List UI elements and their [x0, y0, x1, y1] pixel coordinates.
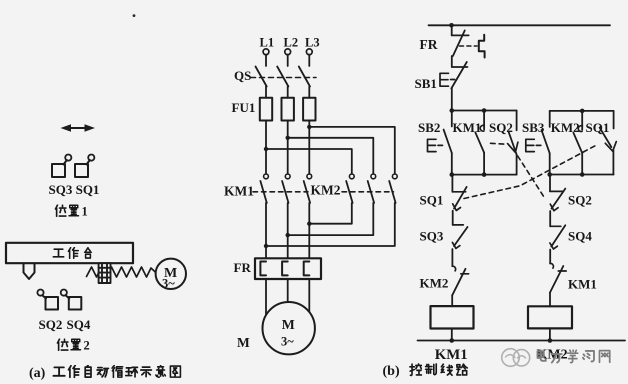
FR linkage dashes: [460, 45, 478, 47]
svg-text:KM2: KM2: [551, 120, 580, 135]
screw nut block: [99, 263, 111, 283]
KM1 linkage dashed: [253, 191, 308, 193]
watermark logo circles: [502, 349, 530, 367]
wire fuse3 down to KM1 pole3: [308, 121, 310, 174]
contactor KM1 pole 3: [304, 174, 312, 203]
limit switch SQ3 NC contact: [452, 225, 467, 266]
svg-text:SQ1: SQ1: [586, 120, 610, 135]
motion double arrow: [61, 124, 96, 132]
node crossover b: [286, 233, 290, 237]
svg-text:KM1: KM1: [453, 120, 482, 135]
coil KM1: [431, 306, 474, 328]
KM2 linkage dashed: [342, 191, 394, 193]
wire coil KM1 to bottom line: [451, 329, 453, 341]
contactor KM2 pole 1: [346, 174, 354, 203]
limit switch SQ1 NC contact: [452, 175, 466, 225]
label 位置2: [58, 339, 90, 353]
node bottom-SB3: [547, 172, 552, 177]
wire fuse1 down to KM1 pole1: [265, 121, 267, 174]
QS linkage dashed line: [251, 77, 317, 79]
start button SB2 (NO): [444, 111, 452, 175]
SB2 pushbutton actuator E: [428, 139, 443, 151]
limit switch SQ4 NC contact: [550, 225, 565, 263]
limit switch SQ2 symbol (roller left): [37, 290, 58, 310]
caption (a) 工作自动循环示意图: [29, 365, 180, 381]
svg-text:KM1: KM1: [435, 347, 468, 363]
wire L1 branch to KM2 pole1: [266, 149, 352, 174]
svg-text:KM2: KM2: [311, 183, 341, 198]
linkage dashed SQ2 (NO to NC): [491, 143, 544, 196]
svg-text:L1: L1: [260, 35, 275, 49]
contactor KM2 pole 2: [368, 174, 376, 203]
svg-text:SQ3: SQ3: [420, 229, 444, 244]
svg-text:(a): (a): [29, 366, 46, 381]
right group top rail: [550, 110, 614, 112]
node bottom KM2: [548, 338, 553, 343]
speck: [133, 14, 136, 17]
svg-text:KM1: KM1: [224, 184, 254, 199]
svg-text:FU1: FU1: [232, 100, 256, 115]
wire KM1 pole3 to FR: [308, 203, 310, 258]
wire L1 to QS: [265, 55, 267, 66]
node top junction: [449, 23, 454, 28]
watermark text 电力学习网: [537, 350, 609, 363]
switch QS pole 3 blade: [299, 67, 310, 87]
limit switch SQ1 NO contact: [600, 111, 614, 175]
contact KM2 aux NO: [573, 111, 582, 175]
svg-text:SQ3 SQ1: SQ3 SQ1: [49, 182, 100, 197]
FR thermal element symbol: [479, 35, 485, 58]
limit switch SQ2 NC contact: [550, 175, 565, 227]
node crossover c: [264, 244, 268, 248]
svg-text:3~: 3~: [281, 335, 294, 349]
terminal L2: [285, 49, 291, 55]
svg-text:SQ4: SQ4: [568, 229, 592, 244]
svg-text:SQ1: SQ1: [420, 193, 444, 208]
limit switch SQ3 symbol (square with roller): [52, 155, 71, 178]
wire FR to motor phase 2: [287, 279, 289, 302]
node bottom-KM1: [482, 172, 487, 177]
FR heater phase 2: [282, 262, 288, 276]
FR heater phase 3: [304, 262, 310, 276]
control bottom line: [418, 340, 626, 342]
linkage dashed SQ1 (NC to NO): [464, 145, 597, 199]
wire L2 to QS: [287, 55, 289, 66]
wire KM2 pole1 crossover to L3 phase: [309, 203, 352, 224]
node rail-SB2: [450, 108, 455, 113]
switch QS pole 2 blade: [277, 67, 288, 87]
svg-text:(b): (b): [383, 364, 400, 379]
svg-text:SQ2: SQ2: [568, 193, 592, 208]
svg-text:1: 1: [82, 205, 88, 219]
wire KM2 pole2 crossover to L2 phase: [288, 203, 374, 235]
node bottom-SB2: [450, 172, 455, 177]
right group bottom rail: [550, 174, 614, 176]
fuse FU1 phase 1: [260, 98, 272, 121]
svg-text:FR: FR: [234, 260, 252, 275]
pointer wedge under table: [24, 263, 35, 279]
caption (b) 控制线路: [383, 364, 468, 379]
contactor KM1 pole 1: [260, 174, 268, 203]
contact KM1 NC interlock: [550, 263, 566, 306]
svg-text:3~: 3~: [162, 276, 175, 290]
svg-text:SB2: SB2: [418, 120, 440, 135]
svg-text:2: 2: [84, 339, 90, 353]
node L1 branch: [264, 147, 268, 151]
FR NC contact (control): [452, 25, 469, 67]
svg-text:M: M: [237, 335, 250, 350]
wire L3 to QS: [308, 55, 310, 66]
motor M 3~ (left): [156, 259, 186, 291]
fuse FU1 phase 2: [282, 98, 294, 121]
contact KM1 aux NO: [475, 111, 484, 175]
wire FR to motor phase 1: [265, 279, 267, 316]
worktable rectangle 工作台: [6, 243, 133, 263]
fuse FU1 phase 3: [303, 98, 315, 121]
wire L3 branch to KM2 pole3: [309, 127, 395, 174]
left group top rail: [452, 110, 517, 112]
SQ1 NO actuation arrow: [605, 142, 616, 152]
SB3 pushbutton actuator E: [526, 139, 541, 151]
limit switch SQ4 symbol (roller left): [61, 290, 82, 310]
node L2 branch: [286, 136, 290, 140]
limit switch SQ2 NO contact: [509, 111, 517, 175]
contactor KM2 pole 3: [389, 174, 397, 203]
contact KM2 NC interlock: [452, 266, 468, 306]
start button SB3 (NO): [542, 111, 550, 175]
wire FR to motor phase 3: [308, 279, 310, 313]
svg-text:SB1: SB1: [415, 76, 437, 91]
wire fuse2 down to KM1 pole2: [287, 121, 289, 174]
node bottom KM1: [450, 338, 455, 343]
svg-text:FR: FR: [420, 37, 438, 52]
thermal relay FR box: [255, 258, 321, 279]
wire KM1 pole1 to FR: [265, 203, 267, 258]
wire KM1 pole2 to FR: [287, 203, 289, 258]
node rail-KM1: [482, 108, 487, 113]
node L3 branch: [307, 125, 311, 129]
lead screw zigzag: [87, 267, 156, 277]
motor M 3~ (main): [263, 302, 315, 354]
terminal L1: [263, 49, 269, 55]
wire L2 branch to KM2 pole2: [288, 138, 374, 174]
SB1 pushbutton actuator E: [440, 73, 455, 86]
node crossover a: [307, 222, 311, 226]
coil KM2: [528, 306, 572, 328]
node bottom-KM2: [580, 172, 585, 177]
FR heater phase 1: [260, 262, 266, 276]
stop button SB1 (NC): [451, 62, 467, 111]
svg-text:KM2: KM2: [420, 276, 449, 291]
wire coil KM2 to bottom line: [549, 328, 551, 340]
svg-text:KM1: KM1: [568, 277, 597, 292]
svg-text:L3: L3: [305, 35, 320, 49]
svg-text:M: M: [282, 317, 295, 332]
terminal L3: [306, 49, 312, 55]
switch QS pole 1 blade: [256, 67, 267, 87]
limit switch SQ1 symbol (square with roller): [75, 155, 94, 178]
wire KM2 pole3 crossover to L1 phase: [266, 203, 395, 246]
SQ2 NO actuation arrow: [508, 142, 518, 152]
svg-text:QS: QS: [234, 68, 251, 83]
left group bottom rail: [452, 174, 517, 176]
control supply top line: [429, 24, 611, 26]
contactor KM1 pole 2: [282, 174, 290, 203]
label 位置1: [56, 205, 88, 219]
node rail-KM2: [580, 109, 585, 114]
svg-text:SB3: SB3: [522, 120, 545, 135]
wire QS to FU1 x3: [266, 87, 309, 98]
svg-text:L2: L2: [284, 35, 299, 49]
